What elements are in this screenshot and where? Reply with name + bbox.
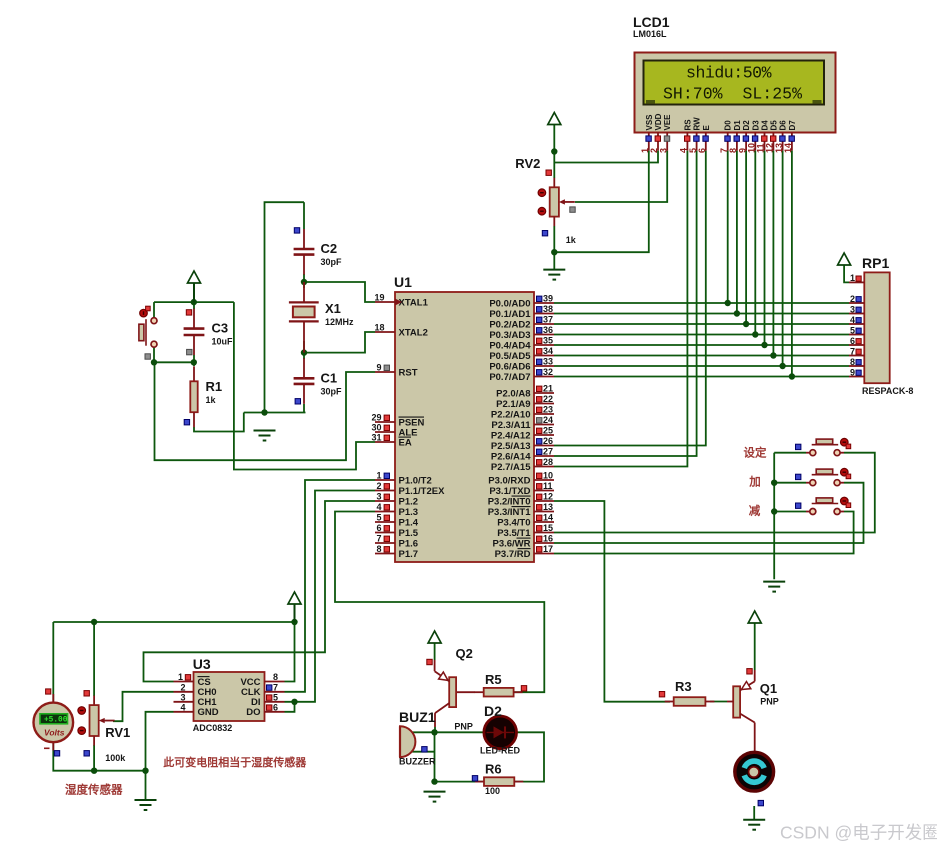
state square C1	[295, 399, 300, 404]
svg-text:RP1: RP1	[862, 255, 889, 271]
junction Q2 collector/buzzer/LED	[431, 729, 437, 735]
svg-text:14: 14	[783, 143, 793, 153]
svg-text:3: 3	[658, 148, 668, 153]
U1 pin 7 (P1.6)	[375, 534, 418, 550]
wire button SET left	[774, 452, 806, 454]
U3 pin 3 (CH1)	[174, 692, 218, 708]
state square R3 left	[659, 692, 664, 697]
state square Q1 emitter	[747, 669, 752, 674]
LCD1 screen	[644, 61, 825, 105]
wire P0.3 bus to RP1	[554, 334, 849, 336]
svg-text:16: 16	[543, 534, 553, 544]
svg-text:加: 加	[748, 475, 761, 489]
svg-text:CSDN @电子开发圈: CSDN @电子开发圈	[780, 823, 937, 843]
resistor R5	[475, 672, 523, 697]
wire XTAL2 net	[304, 332, 375, 353]
push button SET (top)	[796, 438, 851, 455]
svg-text:P0.5/AD5: P0.5/AD5	[489, 351, 531, 362]
svg-text:shidu:50%: shidu:50%	[686, 64, 772, 83]
U1 pin 34 (P0.5/AD5)	[489, 346, 554, 362]
svg-text:P1.7: P1.7	[399, 549, 419, 560]
svg-text:2: 2	[376, 481, 381, 491]
state square R1 bottom	[184, 420, 189, 425]
svg-text:3: 3	[376, 492, 381, 502]
svg-text:2: 2	[180, 682, 185, 692]
svg-text:30pF: 30pF	[321, 257, 343, 267]
resistor R3	[665, 679, 715, 706]
wire voltmeter top lead	[52, 622, 54, 703]
wire buttons common to ground	[773, 453, 775, 580]
junction RV2 bottom/VSS/ground	[551, 249, 557, 255]
wire P0.6 bus to RP1	[554, 365, 849, 367]
svg-text:1k: 1k	[206, 395, 217, 405]
transistor Q2 (PNP)	[435, 646, 473, 732]
wire LCD VSS to ground node	[554, 151, 649, 253]
svg-text:X1: X1	[325, 301, 341, 316]
svg-text:1: 1	[850, 273, 855, 283]
ADC U3 ADC0832 body	[193, 656, 265, 733]
svg-text:设定: 设定	[744, 446, 767, 460]
junction button bus PLUS	[771, 480, 777, 486]
svg-text:R1: R1	[206, 379, 223, 394]
svg-text:19: 19	[374, 293, 384, 303]
svg-text:30: 30	[371, 423, 381, 433]
svg-text:+5.00: +5.00	[44, 717, 68, 725]
svg-text:24: 24	[543, 415, 553, 425]
svg-text:D7: D7	[788, 120, 797, 131]
U1 pin 12 (P3.2/INT0)	[488, 492, 554, 508]
svg-text:RV1: RV1	[105, 725, 130, 740]
svg-text:6: 6	[376, 523, 381, 533]
junction LCD D4 / P0.4	[761, 342, 767, 348]
svg-text:P1.3: P1.3	[399, 507, 419, 518]
wire button MINUS left	[774, 511, 806, 513]
wire RST node horizontal	[154, 361, 194, 363]
wire ground rail (crystal area)	[244, 412, 306, 414]
svg-text:4: 4	[376, 502, 381, 512]
buzzer BUZ1	[399, 709, 436, 767]
svg-text:P2.5/A13: P2.5/A13	[491, 441, 531, 452]
U1 pin 14 (P3.4/T0)	[497, 513, 554, 529]
U1 pin 4 (P1.3)	[375, 502, 418, 518]
LCD1 pin 1 (VSS)	[640, 114, 654, 153]
RP1 pin 1	[849, 273, 864, 283]
svg-text:18: 18	[374, 323, 384, 333]
svg-text:P2.2/A10: P2.2/A10	[491, 409, 531, 420]
wire P3.6 to button PLUS	[554, 483, 864, 543]
U1 pin 6 (P1.5)	[375, 523, 419, 539]
wire +5V to Q2 emitter	[434, 643, 436, 660]
svg-text:26: 26	[543, 436, 553, 446]
svg-text:P2.3/A11: P2.3/A11	[491, 420, 531, 431]
wire RP1 pin1 to +5V	[844, 265, 849, 282]
U1 pin 26 (P2.5/A13)	[491, 436, 554, 452]
junction ground rail crystal	[261, 409, 267, 415]
svg-text:9: 9	[850, 367, 855, 377]
wire P1.3 to R5	[335, 512, 544, 693]
motor (fan)	[735, 752, 774, 791]
svg-text:P3.0/RXD: P3.0/RXD	[488, 475, 530, 486]
wire +5V to RV2 top	[553, 125, 555, 179]
U1 pin 16 (P3.6/WR)	[492, 534, 554, 550]
transistor Q2 emitter lead	[434, 660, 436, 671]
svg-text:D6: D6	[779, 120, 788, 131]
wire P2.5 to LCD E	[554, 151, 706, 446]
svg-text:P2.0/A8: P2.0/A8	[496, 388, 530, 399]
wire button PLUS left	[774, 482, 806, 484]
svg-text:P0.4/AD4: P0.4/AD4	[489, 340, 531, 351]
svg-text:P3.5/T1: P3.5/T1	[497, 528, 531, 539]
svg-text:C1: C1	[321, 370, 338, 385]
wire reset button bottom	[153, 347, 155, 362]
wire C2 top to ground rail (left loop)	[265, 202, 305, 412]
state square RV2 top	[546, 170, 551, 175]
svg-text:LED-RED: LED-RED	[480, 746, 520, 756]
U1 pin 21 (P2.0/A8)	[496, 384, 554, 400]
svg-text:P1.4: P1.4	[399, 517, 419, 528]
U1 pin 3 (P1.2)	[375, 492, 418, 508]
svg-text:1k: 1k	[566, 235, 577, 245]
state square C3 top	[186, 310, 191, 315]
U3 pin 7 (CLK)	[241, 682, 285, 698]
svg-text:36: 36	[543, 325, 553, 335]
LCD1 pin 9 (D2)	[737, 120, 751, 153]
capacitor C1 30pF	[294, 358, 342, 404]
junction ground rail/U3 GND	[142, 768, 148, 774]
U3 pin 2 (CH0)	[174, 682, 217, 698]
svg-text:减: 减	[749, 504, 761, 518]
svg-text:Q2: Q2	[456, 646, 473, 661]
U1 pin 22 (P2.1/A9)	[496, 394, 554, 410]
svg-text:P1.0/T2: P1.0/T2	[399, 475, 432, 486]
transistor Q1 emitter lead	[754, 670, 756, 681]
power +5V (RV2)	[548, 113, 561, 125]
svg-text:Volts: Volts	[44, 728, 65, 738]
svg-text:30pF: 30pF	[321, 386, 343, 396]
LCD1 pin 12 (D5)	[765, 120, 779, 153]
svg-text:P3.4/T0: P3.4/T0	[497, 517, 530, 528]
power +5V (RP1)	[838, 253, 851, 265]
svg-text:P0.2/AD2: P0.2/AD2	[489, 319, 530, 330]
svg-text:3: 3	[180, 692, 185, 702]
wire reset button top	[153, 302, 155, 318]
wire R1 bottom to ground rail	[194, 413, 244, 432]
U1 pin 15 (P3.5/T1)	[497, 523, 554, 539]
U3 pin 4 (GND)	[174, 702, 219, 718]
wire P0.5 bus to RP1	[554, 355, 849, 357]
wire +5V rail bottom-left	[53, 621, 294, 623]
svg-text:25: 25	[543, 426, 553, 436]
wire C3 top lead net	[193, 302, 195, 309]
wire P0.4 bus to RP1	[554, 344, 849, 346]
junction LCD D3 / P0.3	[752, 331, 758, 337]
state square buzzer	[422, 747, 427, 752]
svg-text:P3.3/INT1: P3.3/INT1	[488, 507, 531, 518]
wire buzzer/LED node	[412, 731, 483, 733]
wire R3 to Q1 base	[710, 701, 727, 703]
svg-text:29: 29	[371, 413, 381, 423]
svg-text:1: 1	[376, 471, 381, 481]
svg-text:3: 3	[850, 304, 855, 314]
U1 pin 29 (PSEN)	[371, 413, 424, 429]
svg-text:5: 5	[273, 692, 278, 702]
U1 pin 11 (P3.1/TXD)	[489, 481, 554, 497]
svg-text:R5: R5	[485, 672, 502, 687]
svg-text:23: 23	[543, 405, 553, 415]
svg-text:U3: U3	[193, 656, 211, 672]
U1 pin 2 (P1.1/T2EX)	[375, 481, 445, 497]
wire EA to VCC loop	[234, 302, 375, 469]
svg-text:6: 6	[697, 148, 707, 153]
svg-text:RS: RS	[683, 119, 692, 131]
wire ground rail to R6	[435, 781, 485, 783]
wire XTAL1 net	[304, 282, 375, 302]
svg-text:5: 5	[376, 513, 381, 523]
wire Q2 collector to buzzer node	[434, 727, 436, 732]
svg-text:D4: D4	[761, 120, 770, 131]
svg-text:10uF: 10uF	[212, 337, 234, 347]
state square RV2 wiper	[570, 207, 575, 212]
svg-text:湿度传感器: 湿度传感器	[65, 783, 123, 797]
U1 pin 1 (P1.0/T2)	[375, 471, 432, 487]
capacitor C2 30pF	[294, 229, 342, 275]
svg-text:12: 12	[543, 492, 553, 502]
state square R6 left	[472, 776, 477, 781]
wire R6 to LED cathode loop	[514, 732, 544, 781]
push button RESET (vertical)	[139, 306, 157, 359]
svg-text:1: 1	[178, 672, 183, 682]
power +5V (reset circuit)	[188, 271, 201, 302]
LCD1 pin 8 (D1)	[728, 120, 742, 153]
svg-text:D0: D0	[724, 120, 733, 131]
LCD1 pin 14 (D7)	[783, 120, 797, 153]
wire VCC rail top-left	[154, 301, 234, 303]
U3 pin 1 (CS)	[174, 672, 211, 688]
svg-text:D2: D2	[742, 120, 751, 131]
svg-text:100k: 100k	[105, 753, 126, 763]
transistor Q1 collector lead	[754, 723, 756, 753]
U1 pin 10 (P3.0/RXD)	[488, 471, 554, 487]
svg-text:XTAL1: XTAL1	[399, 297, 429, 308]
svg-text:P0.6/AD6: P0.6/AD6	[489, 361, 530, 372]
U3 pin 8 (VCC)	[240, 672, 284, 688]
svg-text:P1.5: P1.5	[399, 528, 419, 539]
U1 pin 25 (P2.4/A12)	[491, 426, 554, 442]
state square R5 right	[521, 686, 526, 691]
wire P3.2 to R3	[554, 501, 670, 702]
U1 pin 23 (P2.2/A10)	[491, 405, 554, 421]
junction +5V rail/U3 VCC	[291, 619, 297, 625]
power +5V (Q1)	[748, 611, 761, 623]
wire P1.2 to U3 CS	[144, 501, 376, 682]
svg-text:GND: GND	[198, 707, 219, 718]
wire P3.5 to button SET	[554, 453, 875, 533]
U1 pin 17 (P3.7/RD)	[495, 544, 554, 560]
U1 pin 28 (P2.7/A15)	[491, 457, 554, 473]
RP1 pin 6	[849, 336, 864, 346]
junction LCD D2 / P0.2	[743, 321, 749, 327]
svg-text:22: 22	[543, 394, 553, 404]
junction LCD D1 / P0.1	[734, 310, 740, 316]
junction RST/button bottom	[151, 359, 157, 365]
wire RV2 bottom to ground	[553, 226, 555, 270]
svg-text:38: 38	[543, 304, 553, 314]
power +5V (Q2)	[428, 631, 441, 643]
LCD1 pin 3 (VEE)	[658, 114, 672, 153]
wire buzzer bottom pin	[412, 751, 434, 753]
state square Q2 emitter	[427, 659, 432, 664]
svg-text:P2.4/A12: P2.4/A12	[491, 430, 531, 441]
wire LCD D7 vertical	[791, 151, 793, 377]
LCD1 pin 10 (D3)	[747, 120, 761, 153]
svg-text:6: 6	[273, 702, 278, 712]
svg-text:2: 2	[850, 294, 855, 304]
ground (sensor area)	[135, 800, 157, 810]
svg-text:P2.6/A14: P2.6/A14	[491, 451, 531, 462]
svg-text:37: 37	[543, 315, 553, 325]
wire LCD D2 vertical	[745, 151, 747, 324]
wire buzzer node down to ground rail	[434, 732, 436, 781]
wire C3 bottom to R1 top	[193, 355, 195, 366]
svg-text:21: 21	[543, 384, 553, 394]
svg-text:8: 8	[376, 544, 381, 554]
wire P1.1 to U3 DI	[285, 491, 376, 702]
junction LCD D6 / P0.6	[779, 363, 785, 369]
svg-text:PNP: PNP	[760, 697, 779, 707]
svg-text:8: 8	[273, 672, 278, 682]
wire RV1 wiper to U3 CH0	[113, 692, 174, 721]
RP1 pin 5	[849, 325, 864, 335]
svg-text:9: 9	[376, 363, 381, 373]
state square voltmeter bottom	[54, 751, 59, 756]
U1 pin 27 (P2.6/A14)	[491, 447, 554, 463]
svg-text:P3.6/WR: P3.6/WR	[492, 538, 530, 549]
U1 pin 19 (XTAL1)	[374, 293, 428, 309]
voltmeter (humidity display)	[34, 689, 74, 751]
svg-text:8: 8	[850, 357, 855, 367]
ground (motor)	[743, 820, 765, 830]
svg-text:SH:70% SL:25%: SH:70% SL:25%	[663, 84, 802, 103]
LED D2 LED-RED	[480, 703, 520, 756]
U1 pin 9 (RST)	[375, 363, 418, 379]
svg-text:DO: DO	[246, 707, 260, 718]
svg-text:Q1: Q1	[760, 681, 777, 696]
svg-text:LM016L: LM016L	[633, 29, 667, 39]
wire +5V to Q1 emitter	[754, 623, 756, 670]
RP1 pin 3	[849, 304, 864, 314]
junction VCC/C3 top	[191, 299, 197, 305]
svg-text:RV2: RV2	[515, 156, 540, 171]
wire P2.7 to LCD RS	[554, 151, 687, 467]
svg-text:LCD1: LCD1	[633, 14, 670, 30]
RP1 pin 9	[849, 367, 864, 377]
svg-text:10: 10	[543, 471, 553, 481]
svg-text:28: 28	[543, 457, 553, 467]
state square RV1 top	[84, 691, 89, 696]
transistor Q1 (PNP)	[733, 681, 779, 723]
LCD1 pin 6 (E)	[697, 125, 711, 154]
svg-text:12MHz: 12MHz	[325, 317, 354, 327]
wire LCD D5 vertical	[772, 151, 774, 356]
svg-text:此可变电阻相当于湿度传感器: 此可变电阻相当于湿度传感器	[163, 755, 307, 769]
svg-text:D5: D5	[769, 120, 778, 131]
junction X1/C1/XTAL2	[301, 349, 307, 355]
wire P3.7 to button MINUS	[554, 512, 854, 554]
wire LCD VEE to RV2 wiper	[575, 151, 667, 202]
svg-text:R6: R6	[485, 762, 502, 777]
U1 pin 33 (P0.6/AD6)	[489, 357, 554, 373]
svg-text:4: 4	[180, 702, 185, 712]
svg-text:D3: D3	[751, 120, 760, 131]
transistor Q2 collector lead	[434, 713, 436, 727]
U1 pin 30 (ALE)	[371, 423, 417, 439]
U3 pin 6 (DO)	[246, 702, 284, 718]
wire U3 VCC to +5V	[285, 605, 295, 682]
ground (buttons)	[763, 582, 785, 592]
state square C3 bottom	[187, 349, 192, 354]
U1 pin 38 (P0.1/AD1)	[489, 304, 554, 320]
svg-text:P2.7/A15: P2.7/A15	[491, 462, 531, 473]
svg-text:P1.6: P1.6	[399, 538, 419, 549]
LCD1 pin 13 (D6)	[774, 120, 788, 153]
LCD1 pin 4 (RS)	[679, 119, 693, 153]
svg-text:BUZ1: BUZ1	[399, 709, 436, 725]
ground (buzzer)	[424, 792, 446, 802]
RP1 pin 4	[849, 315, 864, 325]
junction R6/ground	[431, 778, 437, 784]
LCD1 pin 11 (D4)	[756, 120, 770, 153]
svg-text:15: 15	[543, 523, 553, 533]
push button MINUS (bottom)	[796, 497, 851, 514]
U1 pin 24 (P2.3/A11)	[491, 415, 554, 431]
U3 pin 5 (DI)	[251, 692, 285, 708]
wire C1 bottom lead net	[303, 404, 305, 413]
svg-text:RESPACK-8: RESPACK-8	[862, 386, 913, 396]
wire C2 top lead net	[303, 202, 305, 229]
U1 pin 36 (P0.3/AD3)	[489, 325, 554, 341]
svg-text:R3: R3	[675, 679, 692, 694]
junction button bus MINUS	[771, 508, 777, 514]
wire X1 bottom / C1 top node	[303, 341, 305, 359]
wire P0.2 bus to RP1	[554, 323, 849, 325]
svg-text:C2: C2	[321, 241, 338, 256]
svg-text:PNP: PNP	[454, 722, 473, 732]
svg-text:39: 39	[543, 294, 553, 304]
crystal X1 12MHz	[289, 282, 354, 353]
U1 pin 32 (P0.7/AD7)	[489, 367, 554, 383]
svg-text:34: 34	[543, 346, 553, 356]
junction LCD D0 / P0.0	[725, 300, 731, 306]
state square motor bottom	[758, 800, 763, 805]
wire P1.0 to U3 CLK	[285, 480, 376, 692]
op-amp U1 (AT89C51 MCU) body	[395, 292, 534, 562]
svg-text:D1: D1	[733, 120, 742, 131]
junction LCD D7 / P0.7	[789, 373, 795, 379]
svg-text:P3.2/INT0: P3.2/INT0	[488, 496, 531, 507]
potentiometer RV1 100k	[78, 696, 130, 763]
U1 pin 8 (P1.7)	[375, 544, 418, 560]
wire P0.1 bus to RP1	[554, 313, 849, 315]
state square RV1 bottom	[84, 751, 89, 756]
power +5V (U3)	[288, 592, 301, 622]
svg-text:RW: RW	[693, 117, 702, 131]
junction LCD D5 / P0.5	[770, 352, 776, 358]
U1 pin 13 (P3.3/INT1)	[488, 502, 554, 518]
svg-text:5: 5	[850, 325, 855, 335]
wire P2.6 to LCD RW	[554, 151, 697, 456]
push button PLUS (middle)	[796, 468, 851, 485]
wire LCD VDD to RV2 top	[554, 151, 658, 163]
